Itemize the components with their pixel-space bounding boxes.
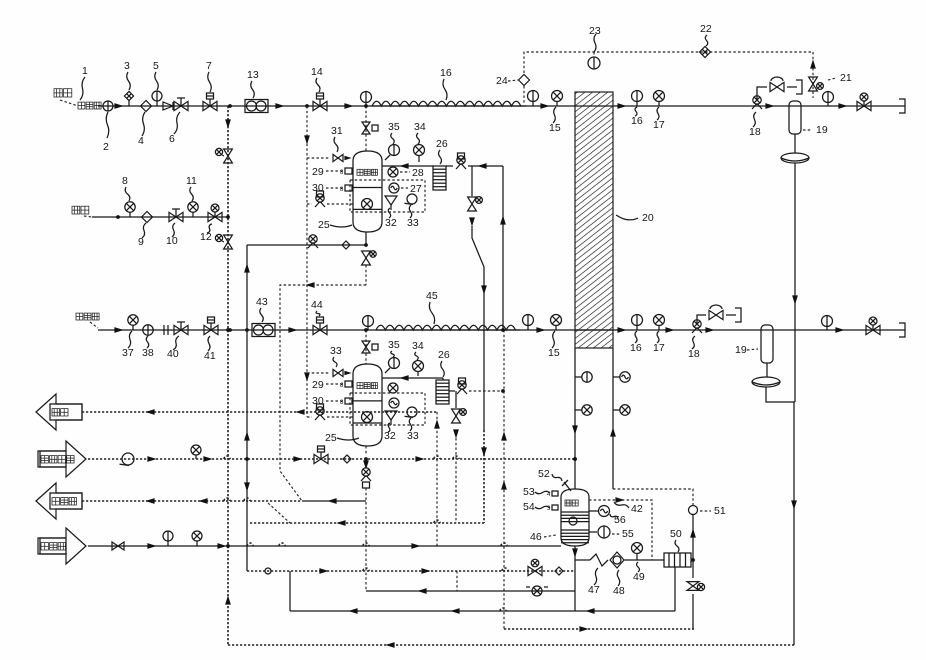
sensor 24 xyxy=(519,75,530,86)
svg-text:16: 16 xyxy=(440,67,452,79)
wire arrow xyxy=(617,103,626,109)
valve 4 xyxy=(141,101,152,112)
riser x503 xyxy=(502,166,504,330)
coil 26a xyxy=(433,166,446,190)
svg-text:25: 25 xyxy=(318,219,330,231)
svg-text:6: 6 xyxy=(169,133,175,145)
wire L2 xyxy=(92,216,228,218)
svg-text:33: 33 xyxy=(330,345,342,357)
node xyxy=(226,215,230,219)
cv xyxy=(309,235,317,243)
valve 31 xyxy=(307,157,330,159)
svg-text:8: 8 xyxy=(122,175,128,187)
agitator b xyxy=(362,412,373,423)
svg-text:34: 34 xyxy=(414,121,426,133)
svg-text:25: 25 xyxy=(325,432,337,444)
svg-text:13: 13 xyxy=(247,69,259,81)
svg-text:20: 20 xyxy=(642,212,654,224)
instrument 5 xyxy=(152,91,162,101)
distilled line xyxy=(88,458,575,460)
valve 14 xyxy=(313,101,320,110)
separator 19a xyxy=(789,101,801,134)
relief R1 xyxy=(224,149,233,156)
relief R2 xyxy=(224,235,233,242)
svg-text:44: 44 xyxy=(311,299,323,311)
valve 10 xyxy=(169,212,176,221)
instrument 28 xyxy=(388,167,398,177)
svg-text:54: 54 xyxy=(523,501,535,513)
valve 33t xyxy=(307,372,330,374)
svg-text:27: 27 xyxy=(410,183,422,195)
valve B4 xyxy=(449,390,455,392)
valve 40 xyxy=(174,325,181,334)
branch 290 xyxy=(289,571,291,611)
wire arrow xyxy=(288,327,297,333)
pump 33b xyxy=(407,407,417,417)
svg-text:30: 30 xyxy=(312,182,324,194)
svg-text:30: 30 xyxy=(312,395,324,407)
valve end2 xyxy=(866,325,873,334)
drain pipe xyxy=(365,232,367,245)
instrument g2 xyxy=(528,91,539,102)
svg-text:43: 43 xyxy=(256,296,268,308)
drain funnel 32 xyxy=(385,196,397,205)
agitator xyxy=(362,199,373,210)
pump 55 xyxy=(589,531,597,533)
svg-text:4: 4 xyxy=(138,135,144,147)
svg-text:19: 19 xyxy=(735,344,747,356)
svg-text:28: 28 xyxy=(412,167,424,179)
riser x613 xyxy=(612,348,614,489)
drain line left xyxy=(247,244,366,246)
dashed box b xyxy=(350,393,425,425)
svg-text:7: 7 xyxy=(206,60,212,72)
node J2 xyxy=(305,104,309,108)
bypass pipe xyxy=(757,87,767,99)
collector 590 xyxy=(366,590,575,592)
svg-text:26: 26 xyxy=(438,349,450,361)
port 30b xyxy=(345,398,352,404)
svg-text:16: 16 xyxy=(630,342,642,354)
riser x575 xyxy=(574,348,576,489)
svg-text:48: 48 xyxy=(613,585,625,597)
instrument 8 xyxy=(125,202,135,212)
valve B2 xyxy=(446,165,453,167)
vessel outlet b xyxy=(382,377,443,379)
heater coil 16 xyxy=(372,101,521,106)
wire arrow xyxy=(536,327,545,333)
valve 49b xyxy=(692,560,694,578)
drain riser xyxy=(436,412,438,546)
valve B3 xyxy=(307,416,312,418)
svg-text:26: 26 xyxy=(436,138,448,150)
drain line xyxy=(82,411,437,413)
node J1 xyxy=(228,104,232,108)
svg-text:42: 42 xyxy=(631,503,643,515)
svg-text:50: 50 xyxy=(670,528,682,540)
svg-text:3: 3 xyxy=(124,60,130,72)
instrument 16a xyxy=(632,91,643,102)
svg-text:1: 1 xyxy=(82,65,88,77)
valve end1 xyxy=(857,101,864,110)
coil 26b xyxy=(442,378,444,380)
instrument 37 xyxy=(128,315,138,325)
wire arrow xyxy=(617,327,626,333)
loop to 51 xyxy=(613,489,693,505)
right downcomer xyxy=(793,402,795,645)
valve 7 xyxy=(203,101,210,110)
wire arrow xyxy=(705,327,714,333)
svg-text:11: 11 xyxy=(186,175,197,187)
pump 48 xyxy=(610,552,624,568)
level loop 42 xyxy=(589,500,652,560)
condenser e1 xyxy=(781,153,809,163)
riser x484 xyxy=(483,267,485,430)
svg-text:29: 29 xyxy=(312,166,324,178)
valve 22 xyxy=(700,47,711,58)
svg-text:55: 55 xyxy=(622,528,634,540)
wire arrow xyxy=(344,103,353,109)
tank 46 xyxy=(561,489,589,546)
relief 21a xyxy=(471,166,473,196)
instrument g6 xyxy=(822,316,833,327)
instrument 35b xyxy=(389,358,400,369)
pump 13 xyxy=(245,100,268,113)
svg-text:15: 15 xyxy=(549,122,561,134)
connector 47 xyxy=(590,554,608,566)
boiler line xyxy=(88,545,561,547)
valve B1 xyxy=(307,203,312,205)
pump return line xyxy=(504,628,694,630)
node xyxy=(501,328,505,332)
feed text2 xyxy=(76,313,83,320)
valve 41 xyxy=(204,325,211,334)
nozzle 54 xyxy=(552,505,558,510)
svg-text:47: 47 xyxy=(588,584,600,596)
svg-text:17: 17 xyxy=(653,342,665,354)
valve 3 xyxy=(124,91,133,100)
svg-text:51: 51 xyxy=(714,505,726,517)
svg-text:24: 24 xyxy=(496,75,508,87)
nozzle 53 xyxy=(552,491,558,496)
condenser e2 xyxy=(752,377,780,387)
svg-text:35: 35 xyxy=(388,339,400,351)
node xyxy=(228,328,232,332)
vessel 25a xyxy=(353,151,382,232)
valve 18b xyxy=(693,320,701,328)
svg-text:49: 49 xyxy=(633,571,645,583)
wire arrow xyxy=(114,327,123,333)
svg-text:18: 18 xyxy=(749,126,761,138)
instrument 17b xyxy=(654,315,665,326)
svg-text:5: 5 xyxy=(153,60,159,72)
valve 44 xyxy=(313,325,320,334)
svg-text:21: 21 xyxy=(840,72,852,84)
instrument 2 xyxy=(103,101,113,111)
collector 612 xyxy=(290,610,675,612)
drain to 25b xyxy=(280,285,366,501)
svg-text:45: 45 xyxy=(426,290,438,302)
tank outlet xyxy=(574,546,576,591)
svg-text:14: 14 xyxy=(311,66,323,78)
svg-text:19: 19 xyxy=(816,124,828,136)
instrument 27 xyxy=(389,183,399,193)
header pipe xyxy=(227,106,229,645)
instrument g3 xyxy=(823,92,834,103)
wire xyxy=(468,165,503,167)
svg-text:37: 37 xyxy=(122,347,134,359)
check valve xyxy=(163,102,173,110)
svg-text:32: 32 xyxy=(385,217,397,229)
svg-text:31: 31 xyxy=(331,125,343,137)
instrument g5 xyxy=(523,315,534,326)
svg-text:32: 32 xyxy=(384,430,396,442)
feed text xyxy=(54,89,62,97)
link 457 xyxy=(456,571,458,591)
wire L3 xyxy=(98,329,905,331)
vessel 25b xyxy=(353,364,382,446)
union xyxy=(163,325,165,335)
wire arrow xyxy=(838,103,847,109)
port 29b xyxy=(345,381,352,387)
instrument 56 xyxy=(589,510,598,512)
valve 12 xyxy=(208,212,215,221)
valve 6 xyxy=(174,101,181,110)
pump 33 xyxy=(407,194,417,204)
drain 25b xyxy=(365,446,367,455)
svg-text:38: 38 xyxy=(142,347,154,359)
ball 51 xyxy=(689,506,698,515)
svg-text:17: 17 xyxy=(653,119,665,131)
instrument 27b xyxy=(389,398,399,408)
instrument 16b xyxy=(632,315,643,326)
wire L1 xyxy=(98,105,905,107)
instrument 38 xyxy=(143,325,153,335)
wire arrow xyxy=(275,103,284,109)
cooling line xyxy=(82,500,302,502)
port 29 xyxy=(345,168,352,174)
outfall arrow cooling xyxy=(36,483,82,519)
svg-text:16: 16 xyxy=(631,115,643,127)
bottom dotted return xyxy=(228,644,794,646)
instrument 34b xyxy=(413,361,424,372)
instrument 49 xyxy=(632,543,643,554)
instrument 34a xyxy=(414,145,425,156)
svg-text:53: 53 xyxy=(523,486,535,498)
node xyxy=(116,215,120,219)
vessel top relief a xyxy=(365,106,367,151)
wire arrow xyxy=(114,103,123,109)
riser x504 low xyxy=(503,330,505,629)
svg-text:12: 12 xyxy=(200,231,212,243)
port 30 xyxy=(345,185,352,191)
wire arrow xyxy=(665,327,674,333)
instrument 28b xyxy=(388,383,398,393)
dashed control line xyxy=(524,52,813,73)
svg-text:35: 35 xyxy=(388,121,400,133)
svg-text:33: 33 xyxy=(407,217,419,229)
relief valve 21 xyxy=(812,52,814,60)
valve 18a xyxy=(753,96,761,104)
svg-text:23: 23 xyxy=(589,25,601,37)
svg-text:22: 22 xyxy=(700,23,712,35)
wire arrow xyxy=(835,327,844,333)
outfall arrow drain xyxy=(36,394,82,430)
svg-text:34: 34 xyxy=(412,340,424,352)
wire arrow xyxy=(540,103,549,109)
separator 19b xyxy=(761,325,773,363)
wire arrow xyxy=(765,103,774,109)
bypass pipe2 xyxy=(697,315,706,323)
wire through block xyxy=(575,105,613,107)
pump 43 xyxy=(252,324,275,337)
svg-text:2: 2 xyxy=(103,141,109,153)
relief 21b xyxy=(455,391,457,408)
relief 25a drain xyxy=(362,251,371,258)
exchanger block 20 xyxy=(575,92,613,348)
svg-text:52: 52 xyxy=(538,468,550,480)
svg-text:41: 41 xyxy=(204,350,216,362)
feed arrow distilled xyxy=(38,441,86,477)
instrument 17a xyxy=(654,91,665,102)
drain funnel 32b xyxy=(385,411,397,420)
filter 50 xyxy=(664,553,691,567)
instrument 35a xyxy=(389,145,400,156)
instrument 23 xyxy=(588,57,600,69)
wire 51 down xyxy=(692,515,694,560)
instrument 15a xyxy=(552,91,563,102)
instrument g1 xyxy=(361,92,372,103)
vessel feed pipe xyxy=(306,106,308,417)
wire xyxy=(766,387,795,402)
svg-text:46: 46 xyxy=(530,531,542,543)
svg-text:18: 18 xyxy=(688,348,700,360)
wire down right xyxy=(794,163,796,402)
heater coil 45 xyxy=(376,325,515,330)
svg-text:29: 29 xyxy=(312,379,324,391)
pipe end bracket xyxy=(899,99,905,113)
svg-text:33: 33 xyxy=(407,430,419,442)
valve 9 xyxy=(142,212,153,223)
collector 570 xyxy=(247,570,575,572)
dashed box xyxy=(350,180,425,212)
pipe end bracket2 xyxy=(899,323,905,337)
feed arrow boiler xyxy=(38,528,86,564)
instrument g4 xyxy=(363,316,374,327)
svg-text:15: 15 xyxy=(548,347,560,359)
instrument 11 xyxy=(188,202,198,212)
wire xyxy=(691,559,693,561)
cooling collector xyxy=(268,503,290,523)
instrument 15b xyxy=(551,315,562,326)
wire xyxy=(624,559,664,561)
nozzle 52 xyxy=(564,482,571,491)
nitrogen text xyxy=(72,206,80,214)
vessel top relief b xyxy=(365,330,367,364)
vessel outlet xyxy=(382,165,433,167)
